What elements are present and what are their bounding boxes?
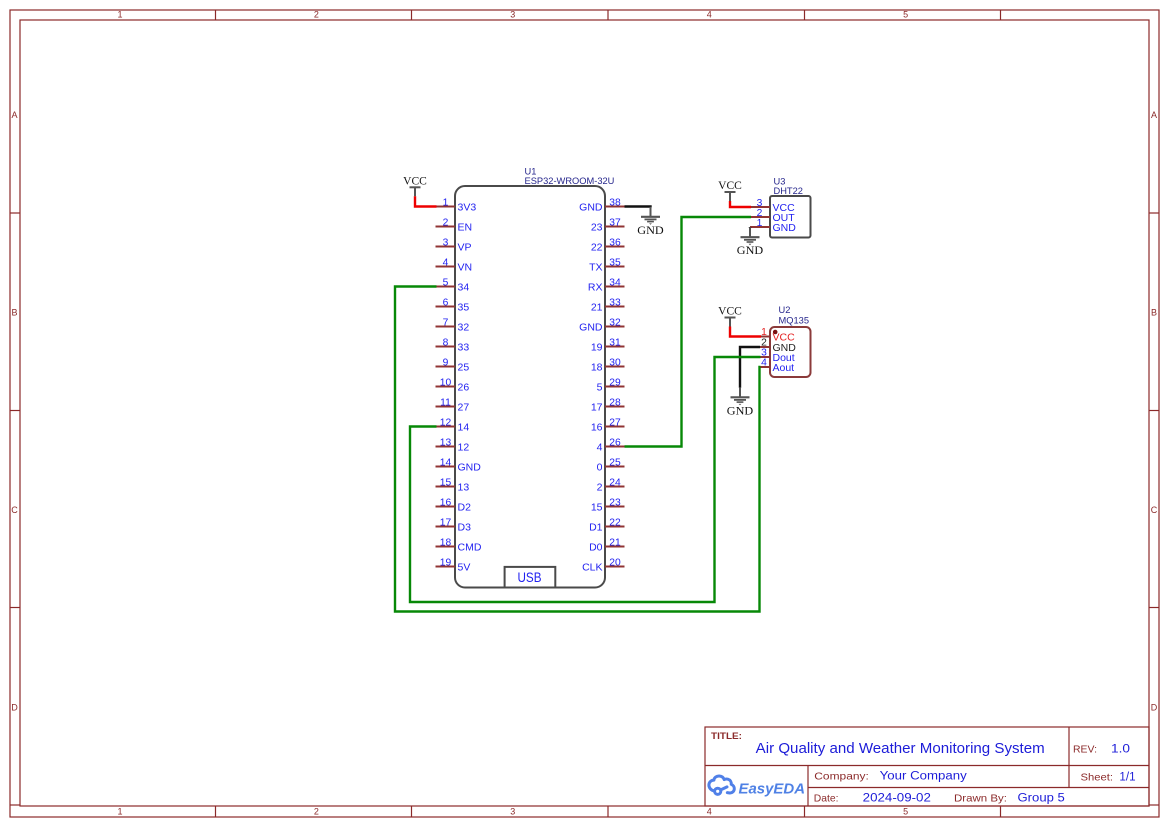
U1 pin 11 (27) (436, 397, 470, 413)
svg-text:1: 1 (757, 218, 763, 229)
svg-text:MQ135: MQ135 (779, 315, 810, 325)
svg-text:29: 29 (609, 377, 621, 388)
U1 pin 18 (CMD) (436, 537, 482, 553)
U3 pin 3 (VCC) (750, 198, 795, 214)
svg-text:13: 13 (440, 437, 452, 448)
svg-text:33: 33 (609, 297, 621, 308)
U1 pin 9 (25) (436, 357, 470, 373)
svg-text:34: 34 (609, 277, 621, 288)
title block outline (705, 727, 1149, 806)
U1 pin 20 (CLK) (582, 557, 624, 573)
ground symbol GND (U2 pin 2) (727, 387, 754, 417)
svg-text:16: 16 (591, 421, 603, 433)
U1 pin 27 (16) (591, 417, 625, 433)
svg-text:23: 23 (591, 221, 603, 233)
svg-text:Company:: Company: (814, 771, 869, 783)
svg-text:D0: D0 (589, 541, 603, 553)
U1 pin 1 (3V3) (436, 197, 477, 213)
svg-text:16: 16 (440, 497, 452, 508)
svg-text:GND: GND (579, 201, 603, 213)
wire U3 pin 1 to ground (749, 227, 751, 228)
U1 pin 6 (35) (436, 297, 470, 313)
svg-text:4: 4 (707, 807, 712, 817)
svg-text:32: 32 (609, 317, 621, 328)
wire net: U1 pin 26 (4) to U3 pin 2 (OUT) (625, 217, 752, 447)
svg-text:5: 5 (597, 381, 603, 393)
svg-text:TX: TX (589, 261, 602, 273)
ruler row labels left (11, 110, 18, 713)
svg-text:C: C (11, 505, 18, 515)
title block divider under title row (705, 765, 1149, 767)
svg-text:RX: RX (588, 281, 603, 293)
svg-text:14: 14 (440, 457, 452, 468)
svg-text:36: 36 (609, 237, 621, 248)
svg-text:2: 2 (597, 481, 603, 493)
U1 pin 15 (13) (436, 477, 470, 493)
svg-text:5V: 5V (458, 561, 471, 573)
U1 pin 32 (GND) (579, 317, 624, 333)
U1 pin 34 (RX) (588, 277, 625, 293)
title block divider right of logo (807, 766, 809, 807)
svg-text:14: 14 (458, 421, 470, 433)
svg-text:6: 6 (443, 297, 449, 308)
title block divider under company row (808, 787, 1149, 789)
svg-text:CMD: CMD (458, 541, 482, 553)
svg-text:4: 4 (443, 257, 449, 268)
svg-text:D: D (1151, 703, 1158, 713)
svg-text:A: A (11, 110, 17, 120)
svg-text:GND: GND (737, 243, 764, 257)
svg-text:35: 35 (609, 257, 621, 268)
svg-text:37: 37 (609, 217, 621, 228)
power symbol VCC (U1 pin 1) (403, 176, 427, 197)
svg-text:27: 27 (458, 401, 470, 413)
ground symbol GND (U1 pin 38) (637, 207, 664, 237)
svg-text:D1: D1 (589, 521, 603, 533)
svg-text:13: 13 (458, 481, 470, 493)
svg-text:1: 1 (117, 10, 122, 20)
ruler column tick marks (216, 10, 1001, 817)
svg-text:B: B (11, 308, 17, 318)
svg-text:15: 15 (591, 501, 603, 513)
svg-text:22: 22 (591, 241, 603, 253)
U3 pin 2 (OUT) (750, 208, 795, 224)
svg-text:3: 3 (510, 10, 515, 20)
wire VCC to U3 pin 3 (730, 201, 751, 207)
U1 pin 21 (D0) (589, 537, 624, 553)
svg-text:GND: GND (637, 223, 664, 237)
svg-text:GND: GND (579, 321, 603, 333)
svg-text:5: 5 (903, 807, 908, 817)
U1 pin 24 (2) (597, 477, 625, 493)
svg-text:VN: VN (458, 261, 473, 273)
svg-text:23: 23 (609, 497, 621, 508)
U1 pin 19 (5V) (436, 557, 471, 573)
U1 pin 29 (5) (597, 377, 625, 393)
svg-text:REV:: REV: (1073, 744, 1097, 756)
svg-text:Air Quality and Weather Monito: Air Quality and Weather Monitoring Syste… (756, 740, 1045, 757)
wire VCC to U2 pin 1 (730, 327, 761, 337)
svg-text:2024-09-02: 2024-09-02 (863, 792, 931, 804)
svg-text:D3: D3 (458, 521, 472, 533)
svg-text:11: 11 (440, 397, 451, 408)
svg-text:12: 12 (440, 417, 452, 428)
svg-text:35: 35 (458, 301, 470, 313)
svg-text:DHT22: DHT22 (774, 186, 803, 196)
U1 pin 37 (23) (591, 217, 625, 233)
U1 pin 36 (22) (591, 237, 625, 253)
U1 pin 26 (4) (597, 437, 625, 453)
svg-text:Sheet:: Sheet: (1081, 771, 1114, 783)
U1 pin 13 (12) (436, 437, 470, 453)
U1 pin 16 (D2) (436, 497, 472, 513)
svg-text:31: 31 (609, 337, 621, 348)
svg-text:8: 8 (443, 337, 449, 348)
title block divider left of REV/Sheet (1068, 727, 1070, 788)
svg-text:3V3: 3V3 (458, 201, 477, 213)
svg-text:Your Company: Your Company (880, 771, 967, 783)
svg-text:0: 0 (597, 461, 603, 473)
svg-text:GND: GND (773, 222, 797, 234)
svg-text:4: 4 (707, 10, 712, 20)
U2 pin 3 (Dout) (760, 348, 795, 364)
svg-text:Date:: Date: (814, 792, 839, 804)
svg-text:19: 19 (591, 341, 603, 353)
svg-text:1: 1 (761, 327, 767, 338)
wire VCC to U1 pin 1 (415, 196, 437, 206)
svg-text:26: 26 (458, 381, 470, 393)
svg-text:33: 33 (458, 341, 470, 353)
svg-text:9: 9 (443, 357, 449, 368)
svg-text:Drawn By:: Drawn By: (954, 792, 1007, 804)
svg-text:CLK: CLK (582, 561, 602, 573)
U1 pin 12 (14) (436, 417, 470, 433)
svg-text:D2: D2 (458, 501, 472, 513)
svg-text:5: 5 (903, 10, 908, 20)
svg-text:EN: EN (458, 221, 473, 233)
svg-text:10: 10 (440, 377, 452, 388)
ruler column labels top (117, 10, 908, 20)
svg-text:4: 4 (761, 358, 767, 369)
svg-text:26: 26 (609, 437, 621, 448)
power symbol VCC (U3 pin 3) (718, 180, 742, 201)
wire net: U1 pin 12 (14) to U2 pin 3 (Dout) (410, 357, 761, 602)
svg-text:25: 25 (458, 361, 470, 373)
sensor U3 body (DHT22) (770, 196, 811, 238)
U1 USB connector box (505, 567, 556, 588)
ruler row tick marks (10, 213, 1159, 805)
svg-text:GND: GND (727, 403, 754, 417)
U1 pin 7 (32) (436, 317, 470, 333)
svg-text:24: 24 (609, 477, 621, 488)
svg-text:5: 5 (443, 277, 449, 288)
svg-text:17: 17 (440, 517, 452, 528)
U1 pin 38 (GND) (579, 197, 624, 213)
svg-text:VP: VP (458, 241, 472, 253)
ground symbol GND (U3 pin 1) (737, 227, 764, 257)
svg-text:12: 12 (458, 441, 470, 453)
U2 pin 4 (Aout) (760, 358, 794, 374)
svg-text:VCC: VCC (718, 306, 742, 318)
svg-text:21: 21 (609, 537, 621, 548)
U1 pin 3 (VP) (436, 237, 472, 253)
svg-text:Aout: Aout (773, 362, 795, 374)
U1 pin 31 (19) (591, 337, 625, 353)
power symbol VCC (U2 pin 1) (718, 306, 742, 327)
svg-text:20: 20 (609, 557, 621, 568)
svg-text:18: 18 (591, 361, 603, 373)
U1 pin 14 (GND) (436, 457, 482, 473)
svg-text:17: 17 (591, 401, 603, 413)
U2 pin 1 marker dot (773, 330, 778, 335)
svg-text:27: 27 (609, 417, 621, 428)
svg-text:2: 2 (314, 807, 319, 817)
svg-text:22: 22 (609, 517, 621, 528)
svg-text:28: 28 (609, 397, 621, 408)
U3 pin 1 (GND) (750, 218, 796, 234)
U1 pin 17 (D3) (436, 517, 472, 533)
sensor U2 body (MQ135) (770, 327, 811, 377)
U1 pin 10 (26) (436, 377, 470, 393)
svg-text:18: 18 (440, 537, 452, 548)
svg-text:VCC: VCC (718, 180, 742, 192)
svg-text:25: 25 (609, 457, 621, 468)
wire net: U1 pin 5 (34) to U2 pin 4 (Aout) (395, 287, 761, 612)
U1 pin 5 (34) (436, 277, 470, 293)
svg-text:A: A (1151, 110, 1157, 120)
svg-text:ESP32-WROOM-32U: ESP32-WROOM-32U (525, 176, 615, 186)
svg-text:15: 15 (440, 477, 452, 488)
svg-text:4: 4 (597, 441, 603, 453)
svg-text:1.0: 1.0 (1111, 744, 1130, 756)
U1 pin 23 (15) (591, 497, 625, 513)
svg-text:U2: U2 (779, 305, 791, 315)
svg-text:3: 3 (510, 807, 515, 817)
ruler row labels right (1151, 110, 1158, 713)
svg-text:30: 30 (609, 357, 621, 368)
U1 pin 22 (D1) (589, 517, 624, 533)
svg-text:Group 5: Group 5 (1018, 792, 1065, 804)
svg-text:1: 1 (117, 807, 122, 817)
svg-text:38: 38 (609, 197, 621, 208)
svg-text:USB: USB (518, 569, 542, 585)
U2 pin 1 (VCC) (760, 327, 795, 343)
svg-text:2: 2 (443, 217, 449, 228)
U1 pin 8 (33) (436, 337, 470, 353)
svg-text:34: 34 (458, 281, 470, 293)
U1 pin 35 (TX) (589, 257, 624, 273)
svg-text:2: 2 (314, 10, 319, 20)
U1 pin 33 (21) (591, 297, 625, 313)
svg-text:1: 1 (443, 197, 449, 208)
svg-text:C: C (1151, 505, 1158, 515)
svg-text:7: 7 (443, 317, 449, 328)
wire U1 pin 38 to ground (625, 207, 651, 208)
op-amp U1 body (ESP32-WROOM-32U module) (455, 186, 605, 588)
U1 pin 28 (17) (591, 397, 625, 413)
wire U2 pin 2 to ground (740, 347, 760, 388)
U1 pin 30 (18) (591, 357, 625, 373)
svg-text:GND: GND (458, 461, 482, 473)
svg-text:3: 3 (443, 237, 449, 248)
U2 pin 2 (GND) (760, 338, 796, 354)
svg-text:19: 19 (440, 557, 452, 568)
svg-text:32: 32 (458, 321, 470, 333)
svg-text:TITLE:: TITLE: (711, 731, 742, 742)
svg-text:VCC: VCC (403, 176, 427, 188)
U1 pin 25 (0) (597, 457, 625, 473)
svg-text:EasyEDA: EasyEDA (739, 781, 806, 798)
svg-text:1/1: 1/1 (1119, 771, 1135, 783)
svg-text:D: D (11, 703, 18, 713)
EasyEDA logo cloud icon (709, 776, 734, 794)
svg-text:B: B (1151, 308, 1157, 318)
U1 pin 4 (VN) (436, 257, 473, 273)
svg-text:21: 21 (591, 301, 603, 313)
ruler column labels bottom (117, 807, 908, 817)
U1 pin 2 (EN) (436, 217, 473, 233)
